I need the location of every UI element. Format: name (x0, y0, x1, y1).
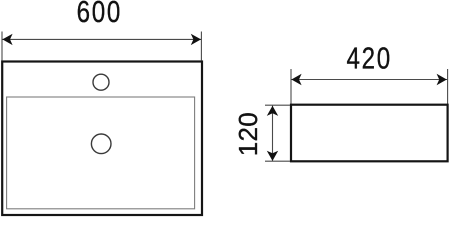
extension line left of 420 dimension (290, 69, 292, 104)
arrowhead left of 420 dimension (291, 74, 301, 85)
arrowhead top of 120 dimension (267, 106, 278, 116)
arrowhead left of 600 dimension (2, 34, 12, 45)
extension line bottom of 120 dimension (265, 160, 290, 162)
sink side view rectangle (291, 105, 448, 162)
dimension label 420 (346, 40, 391, 75)
drain hole circle (91, 134, 111, 154)
extension line top of 120 dimension (265, 104, 290, 106)
dimension label 120 (rotated) (233, 112, 263, 156)
arrowhead right of 600 dimension (191, 34, 201, 45)
svg-text:120: 120 (233, 112, 263, 156)
arrowhead right of 420 dimension (437, 74, 447, 85)
faucet hole circle (93, 74, 109, 90)
svg-text:420: 420 (346, 40, 391, 75)
sink basin inner rectangle (7, 97, 195, 209)
dimension line 120 (272, 106, 274, 161)
svg-text:600: 600 (77, 0, 122, 29)
extension line right of 420 dimension (447, 69, 449, 104)
dimension label 600 (77, 0, 122, 29)
dimension line 600 (2, 38, 201, 40)
dimension line 420 (291, 79, 447, 81)
extension line left of 600 dimension (1, 32, 3, 61)
sink top view outer rectangle (2, 62, 202, 216)
extension line right of 600 dimension (200, 32, 202, 61)
arrowhead bottom of 120 dimension (267, 151, 278, 161)
